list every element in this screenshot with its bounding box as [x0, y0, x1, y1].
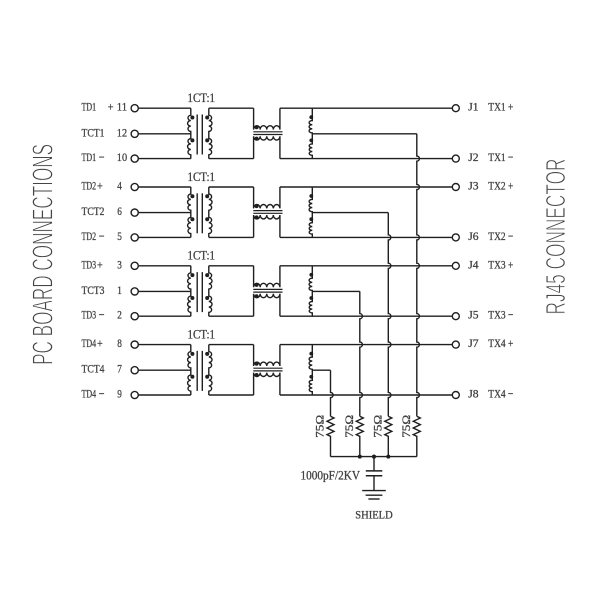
wire: channel 1 center tap to termination bus: [312, 133, 417, 135]
vertical bus: channel 2 tap down to resistor R2 (with wire hops): [388, 213, 391, 417]
wire: channel 4 center tap to termination bus: [312, 369, 330, 371]
wire: T1 secondary top to choke L1: [209, 107, 254, 109]
svg-text:J4: J4: [468, 257, 478, 271]
svg-text:10: 10: [117, 150, 127, 164]
wire: pin 5 to transformer T2: [138, 236, 191, 238]
common-mode choke L1 core: [253, 132, 282, 135]
resistor 75-ohm for channel 2: [385, 416, 392, 456]
pin J1: TX1+ (right terminal circle): [452, 100, 513, 114]
label 75 ohm (rotated) for channel 2 resistor: [373, 415, 385, 438]
svg-text:TX4 +: TX4 +: [488, 336, 513, 350]
label 75 ohm (rotated) for channel 4 resistor: [315, 415, 327, 438]
wire: T3 secondary top to choke L3: [209, 265, 254, 267]
svg-text:TX3 −: TX3 −: [488, 308, 513, 322]
wire: choke L4 top to J pin: [280, 344, 452, 346]
svg-text:6: 6: [117, 204, 122, 218]
pin J3: TX2+ (right terminal circle): [452, 179, 513, 193]
pin J7: TX4+ (right terminal circle): [452, 336, 513, 350]
transformer T3 core: [197, 272, 202, 312]
pin 8: TD4+ (left terminal circle): [82, 336, 139, 350]
pin J6: TX2- (right terminal circle): [452, 229, 513, 243]
svg-text:PC BOARD CONNECTIONS: PC BOARD CONNECTIONS: [28, 144, 60, 365]
vertical bus: channel 4 tap down to resistor R4 (with wire hops): [331, 370, 334, 416]
pin 2: TD3- (left terminal circle): [82, 308, 139, 322]
svg-text:8: 8: [117, 336, 122, 350]
svg-text:TD3: TD3: [82, 308, 97, 322]
pin J8: TX4- (right terminal circle): [452, 387, 513, 401]
pin J5: TX3- (right terminal circle): [452, 308, 513, 322]
pin 10: TD1- (left terminal circle): [82, 150, 139, 164]
wire: T2 secondary bottom to choke L2: [209, 236, 254, 238]
center-tap termination winding for channel 4: [309, 345, 313, 395]
wire: pin 1 to transformer T3: [138, 290, 191, 292]
svg-text:TD1: TD1: [82, 100, 97, 114]
transformer T2 primary winding (center-tapped): [188, 187, 195, 237]
svg-text:J8: J8: [468, 387, 478, 401]
svg-text:TD4: TD4: [82, 387, 97, 401]
transformer T1 core: [197, 115, 202, 155]
svg-text:1CT:1: 1CT:1: [188, 327, 216, 341]
svg-text:75Ω: 75Ω: [373, 415, 385, 438]
svg-text:75Ω: 75Ω: [315, 415, 327, 438]
wire: T2 secondary top to choke L2: [209, 186, 254, 188]
bottom termination bus wire: [331, 456, 417, 458]
wire: T3 secondary bottom to choke L3: [209, 315, 254, 317]
svg-text:TD4: TD4: [82, 336, 97, 350]
junction dots on termination bus: [358, 455, 391, 459]
transformer T4 primary winding (center-tapped): [188, 345, 195, 395]
svg-text:−: −: [99, 150, 105, 164]
resistor 75-ohm for channel 3: [356, 416, 363, 456]
svg-text:TCT2: TCT2: [82, 204, 105, 218]
wire: pin 11 to transformer T1: [138, 107, 191, 109]
earth ground (SHIELD) symbol: [362, 491, 386, 499]
wire: pin 4 to transformer T2: [138, 186, 191, 188]
svg-text:SHIELD: SHIELD: [355, 510, 392, 522]
common-mode choke L1 upper winding: [254, 108, 280, 129]
pin 12: TCT1 (left terminal circle): [82, 125, 139, 139]
svg-text:−: −: [99, 229, 105, 243]
svg-text:J6: J6: [468, 229, 478, 243]
transformer T3 ratio label 1CT:1: [188, 249, 216, 263]
svg-text:1CT:1: 1CT:1: [188, 91, 216, 105]
wire: channel 2 center tap to termination bus: [312, 212, 388, 214]
left title: PC BOARD CONNECTIONS: [28, 144, 60, 365]
svg-text:TD3: TD3: [82, 257, 97, 271]
common-mode choke L2 upper winding: [254, 187, 280, 208]
wire: T4 secondary bottom to choke L4: [209, 394, 254, 396]
svg-text:J7: J7: [468, 336, 478, 350]
label SHIELD: [355, 510, 392, 522]
pin 7: TCT4 (left terminal circle): [82, 362, 139, 376]
transformer T4 ratio label 1CT:1: [188, 327, 216, 341]
transformer T1 secondary winding: [205, 108, 212, 158]
pin 5: TD2- (left terminal circle): [82, 229, 139, 243]
svg-text:TCT4: TCT4: [82, 362, 105, 376]
svg-text:4: 4: [117, 179, 122, 193]
svg-text:TD2: TD2: [82, 229, 97, 243]
svg-text:TX1 +: TX1 +: [488, 100, 513, 114]
transformer T1 primary winding (center-tapped): [188, 108, 195, 158]
pin J2: TX1- (right terminal circle): [452, 150, 513, 164]
vertical bus: channel 1 tap down to resistor R1 (with wire hops): [417, 134, 420, 417]
svg-text:1: 1: [117, 283, 122, 297]
transformer T3 secondary winding: [205, 266, 212, 316]
transformer T4 core: [197, 351, 202, 391]
pin 4: TD2+ (left terminal circle): [82, 179, 139, 193]
svg-text:12: 12: [117, 125, 127, 139]
wire: choke L1 top to J pin: [280, 107, 452, 109]
wire: pin 9 to transformer T4: [138, 394, 191, 396]
wire: choke L3 bottom to J pin: [280, 315, 452, 317]
transformer T1 ratio label 1CT:1: [188, 91, 216, 105]
svg-text:2: 2: [117, 308, 122, 322]
svg-text:5: 5: [117, 229, 122, 243]
transformer T3 primary winding (center-tapped): [188, 266, 195, 316]
wire: pin 10 to transformer T1: [138, 158, 191, 160]
label 1000pF/2KV: [301, 468, 361, 483]
common-mode choke L1 lower winding: [254, 136, 280, 158]
svg-text:3: 3: [117, 257, 122, 271]
pin 1: TCT3 (left terminal circle): [82, 283, 139, 297]
svg-text:TX4 −: TX4 −: [488, 387, 513, 401]
resistor 75-ohm for channel 1: [413, 416, 420, 456]
svg-text:TCT1: TCT1: [82, 125, 105, 139]
wire: pin 8 to transformer T4: [138, 344, 191, 346]
svg-text:+: +: [97, 257, 103, 271]
wire: T1 secondary bottom to choke L1: [209, 158, 254, 160]
svg-text:+: +: [97, 179, 103, 193]
common-mode choke L3 lower winding: [254, 294, 280, 316]
svg-text:TD2: TD2: [82, 179, 97, 193]
svg-text:−: −: [99, 387, 105, 401]
wire: channel 3 center tap to termination bus: [312, 290, 360, 292]
svg-text:9: 9: [117, 387, 122, 401]
svg-text:1000pF/2KV: 1000pF/2KV: [301, 468, 361, 483]
label 75 ohm (rotated) for channel 1 resistor: [401, 415, 413, 438]
wire: pin 2 to transformer T3: [138, 315, 191, 317]
svg-text:+: +: [108, 100, 114, 114]
common-mode choke L2 core: [253, 211, 282, 214]
common-mode choke L4 core: [253, 368, 282, 371]
svg-text:TX2 +: TX2 +: [488, 179, 513, 193]
svg-text:TCT3: TCT3: [82, 283, 105, 297]
center-tap termination winding for channel 1: [309, 108, 313, 158]
wire: choke L2 bottom to J pin: [280, 236, 452, 238]
label 75 ohm (rotated) for channel 3 resistor: [344, 415, 356, 438]
svg-text:75Ω: 75Ω: [401, 415, 413, 438]
wire: pin 12 to transformer T1: [138, 133, 191, 135]
svg-text:TX3 +: TX3 +: [488, 257, 513, 271]
svg-text:J1: J1: [468, 100, 478, 114]
pin 9: TD4- (left terminal circle): [82, 387, 139, 401]
svg-text:J3: J3: [468, 179, 478, 193]
wire: choke L4 bottom to J pin: [280, 394, 452, 396]
svg-text:TX1 −: TX1 −: [488, 150, 513, 164]
transformer T2 secondary winding: [205, 187, 212, 237]
pin 11: TD1+ (left terminal circle): [82, 100, 139, 114]
resistor 75-ohm for channel 4: [327, 416, 334, 456]
wire: choke L1 bottom to J pin: [280, 158, 452, 160]
pin 6: TCT2 (left terminal circle): [82, 204, 139, 218]
svg-text:J2: J2: [468, 150, 478, 164]
common-mode choke L3 core: [253, 289, 282, 292]
wire: pin 3 to transformer T3: [138, 265, 191, 267]
wire: pin 6 to transformer T2: [138, 212, 191, 214]
vertical bus: channel 3 tap down to resistor R3 (with wire hops): [360, 291, 363, 416]
svg-text:1CT:1: 1CT:1: [188, 249, 216, 263]
center-tap termination winding for channel 2: [309, 187, 313, 237]
right title: RJ45 CONNECTOR: [540, 159, 571, 315]
center-tap termination winding for channel 3: [309, 266, 313, 316]
svg-text:J5: J5: [468, 308, 478, 322]
svg-text:1CT:1: 1CT:1: [188, 170, 216, 184]
svg-text:7: 7: [117, 362, 122, 376]
svg-text:TX2 −: TX2 −: [488, 229, 513, 243]
svg-text:RJ45 CONNECTOR: RJ45 CONNECTOR: [540, 159, 571, 315]
svg-text:−: −: [99, 308, 105, 322]
common-mode choke L3 upper winding: [254, 266, 280, 287]
common-mode choke L4 upper winding: [254, 345, 280, 366]
svg-text:+: +: [97, 336, 103, 350]
transformer T2 core: [197, 193, 202, 233]
wire: choke L2 top to J pin: [280, 186, 452, 188]
common-mode choke L4 lower winding: [254, 373, 280, 395]
svg-text:TD1: TD1: [82, 150, 97, 164]
transformer T2 ratio label 1CT:1: [188, 170, 216, 184]
transformer T4 secondary winding: [205, 345, 212, 395]
pin 3: TD3+ (left terminal circle): [82, 257, 139, 271]
pin J4: TX3+ (right terminal circle): [452, 257, 513, 271]
capacitor C1 1000pF/2KV: [366, 457, 383, 491]
wire: T4 secondary top to choke L4: [209, 344, 254, 346]
wire: pin 7 to transformer T4: [138, 369, 191, 371]
svg-text:11: 11: [117, 100, 127, 114]
common-mode choke L2 lower winding: [254, 215, 280, 237]
svg-text:75Ω: 75Ω: [344, 415, 356, 438]
wire: choke L3 top to J pin: [280, 265, 452, 267]
